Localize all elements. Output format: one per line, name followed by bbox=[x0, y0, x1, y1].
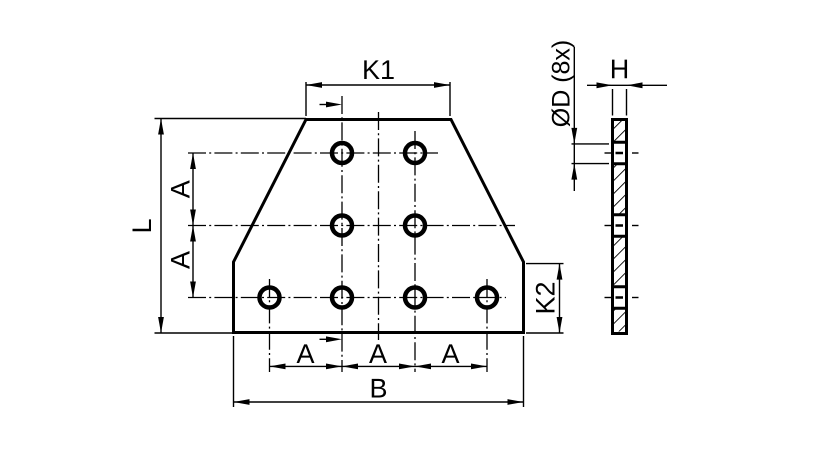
plate outline (front view) bbox=[234, 120, 524, 333]
hole row1 left bbox=[332, 143, 352, 163]
hole row2 left bbox=[332, 216, 352, 236]
side hole centermarks row1 bbox=[605, 152, 639, 154]
hole row2 right bbox=[405, 216, 425, 236]
centerline row 3 bbox=[188, 297, 506, 299]
hole row3 far-right bbox=[477, 288, 497, 308]
dimension K2 bbox=[526, 264, 564, 333]
side hole centermarks row2 bbox=[605, 225, 639, 227]
dimension A bottom row bbox=[270, 339, 488, 369]
svg-text:K2: K2 bbox=[531, 281, 561, 314]
centerline row 2 bbox=[188, 225, 515, 227]
dimension H bbox=[587, 54, 667, 115]
dimension B bbox=[234, 336, 524, 407]
side hole centermarks row3 bbox=[605, 297, 639, 299]
hole row3 right bbox=[405, 288, 425, 308]
svg-text:A: A bbox=[166, 180, 196, 198]
svg-text:L: L bbox=[127, 218, 157, 233]
small reference arrow top bbox=[320, 102, 343, 108]
svg-text:A: A bbox=[441, 339, 459, 369]
hole row1 right bbox=[405, 143, 425, 163]
svg-text:B: B bbox=[369, 373, 387, 403]
hole row3 far-left bbox=[260, 288, 280, 308]
main vertical centerline bbox=[378, 112, 380, 340]
centerline column hole right bbox=[486, 279, 488, 372]
centerline column hole mid-left bbox=[341, 96, 343, 372]
dimension A left column bbox=[166, 153, 196, 298]
hole row3 left bbox=[332, 288, 352, 308]
svg-text:A: A bbox=[296, 339, 314, 369]
centerline column hole mid-right bbox=[414, 131, 416, 372]
dimension diameter D (8x) bbox=[548, 40, 610, 191]
centerline column hole left bbox=[269, 279, 271, 372]
svg-text:K1: K1 bbox=[362, 55, 395, 85]
dimension K1 bbox=[306, 55, 450, 116]
centerline row 1 bbox=[188, 152, 438, 154]
svg-text:A: A bbox=[166, 251, 196, 269]
svg-text:A: A bbox=[369, 339, 387, 369]
small reference arrow bottom bbox=[320, 336, 343, 342]
dimension L bbox=[127, 119, 306, 334]
side view plate section bbox=[611, 120, 628, 334]
svg-text:ØD (8x): ØD (8x) bbox=[548, 40, 576, 128]
svg-text:H: H bbox=[610, 54, 630, 84]
